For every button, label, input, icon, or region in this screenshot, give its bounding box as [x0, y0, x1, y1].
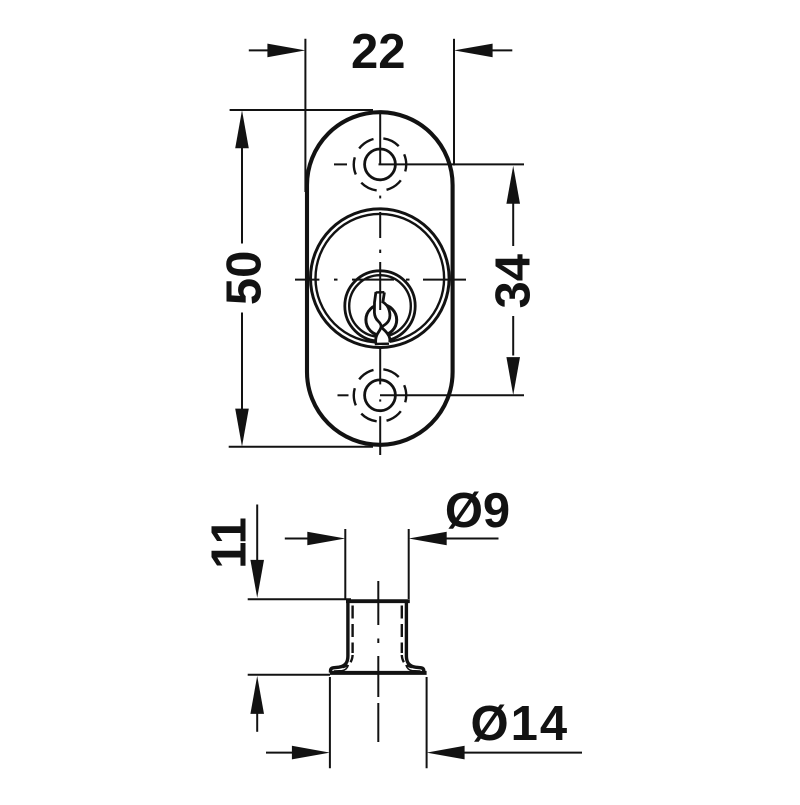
vertical centerline — [379, 112, 381, 455]
plug inner circle — [349, 275, 411, 337]
dimension 50 extension lines — [229, 110, 373, 447]
dimension 11 arrows — [256, 505, 258, 561]
keyway foot bottom edge — [375, 343, 389, 346]
cylinder horizontal centerline — [295, 279, 466, 281]
plug outer circle — [345, 271, 415, 341]
dimension D9 extension lines — [345, 529, 408, 599]
keyway channel right border — [382, 292, 390, 342]
cylinder outer circle — [311, 209, 450, 348]
top screw hole — [365, 149, 396, 180]
svg-text:11: 11 — [203, 517, 257, 569]
svg-text:Ø9: Ø9 — [445, 484, 510, 538]
dimension D14 extension lines — [330, 677, 427, 768]
sleeve right wall and flange — [406, 601, 423, 673]
dimension 11 extension lines — [248, 599, 351, 675]
dimension D14 arrows — [266, 752, 292, 754]
keyway channel left border — [374, 292, 381, 344]
escutcheon plate outline — [307, 112, 453, 445]
top screw hole dashed circle — [346, 130, 415, 199]
flange inner fillet thin lines — [334, 665, 349, 671]
svg-text:22: 22 — [351, 25, 406, 79]
sleeve left wall and flange — [331, 601, 348, 673]
cylinder inner circle — [316, 214, 445, 343]
dimension D9 arrows — [285, 538, 308, 540]
sleeve vertical centerline — [377, 581, 379, 742]
keyway channel void — [374, 292, 390, 344]
dimension 50 line and arrows — [241, 147, 243, 410]
sleeve top edge — [346, 599, 410, 603]
bottom hole horizontal centerline / 34 extension — [338, 394, 525, 396]
flange bottom edge — [330, 671, 427, 675]
svg-text:34: 34 — [487, 254, 541, 309]
dimension 22 arrows — [249, 49, 268, 51]
svg-text:Ø14: Ø14 — [470, 697, 569, 751]
keyway slot top edge — [376, 291, 385, 294]
top hole horizontal centerline / 34 extension — [334, 163, 524, 165]
keyway bulb — [366, 305, 397, 336]
dimension 34 line and arrows — [512, 203, 514, 356]
bottom screw hole dashed circle — [346, 361, 415, 430]
svg-text:50: 50 — [217, 251, 271, 306]
hidden bore lines (dashed) — [343, 606, 412, 668]
bottom screw hole — [365, 380, 396, 411]
dimension 22 extension lines — [305, 39, 454, 192]
